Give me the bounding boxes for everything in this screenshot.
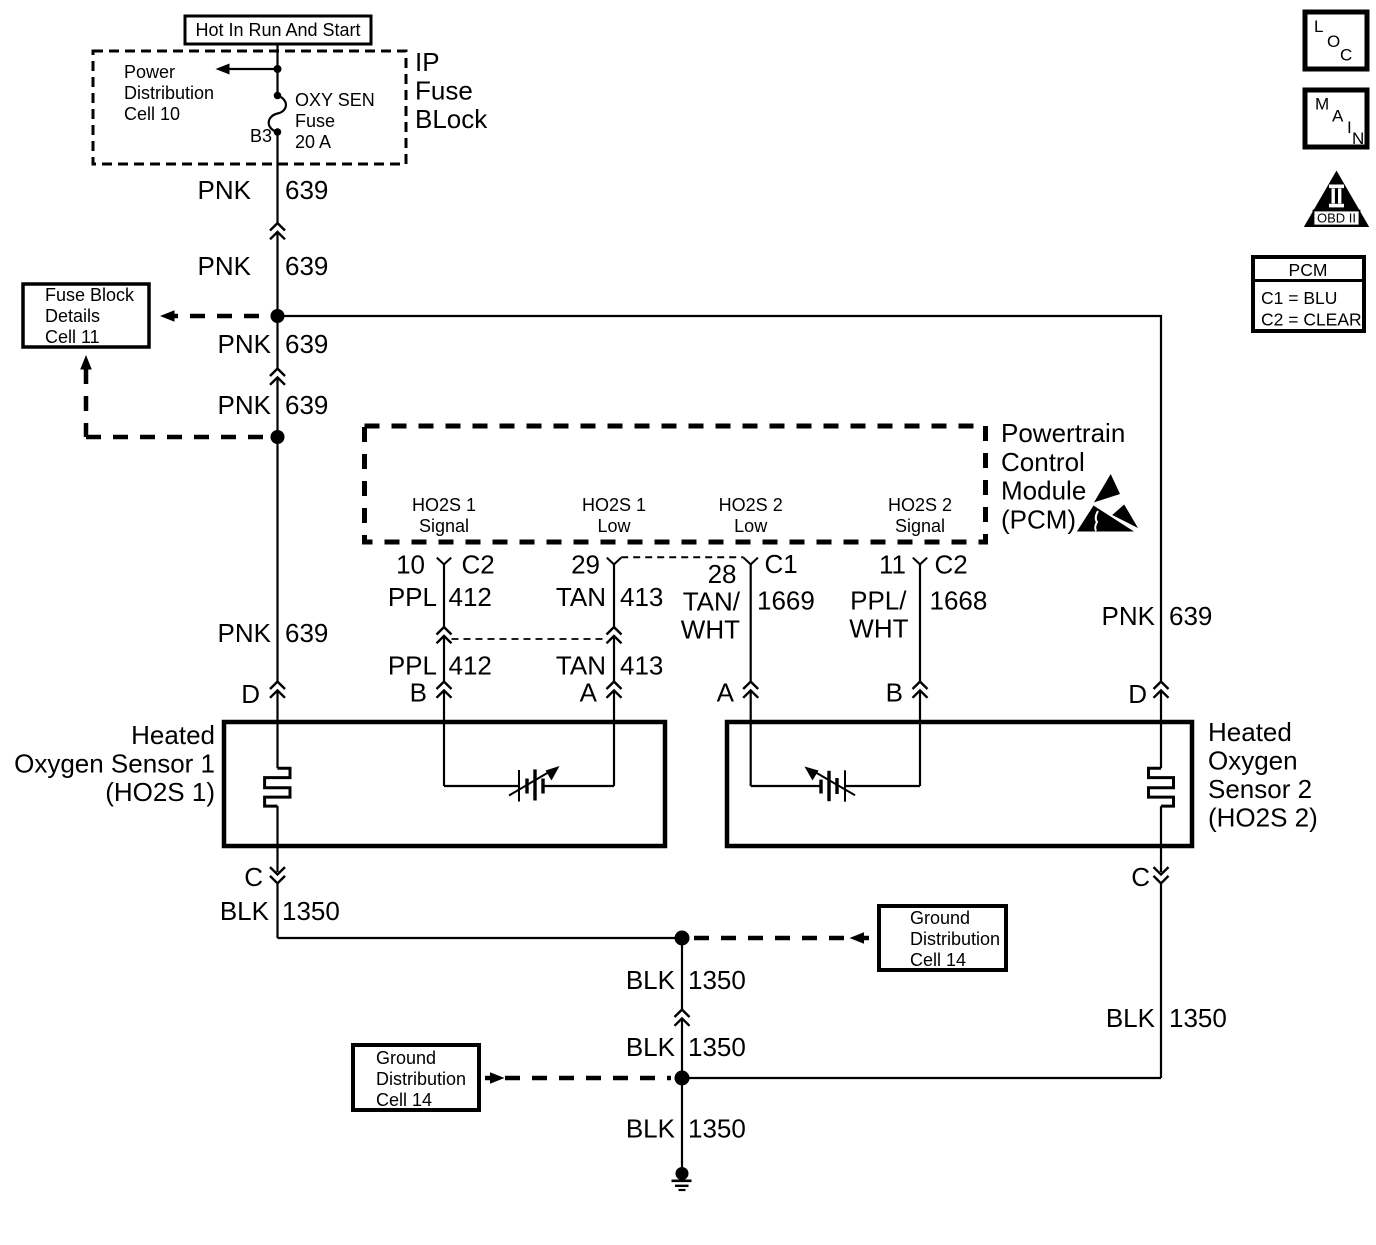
in-line connector on PNK 639 xyxy=(270,369,285,385)
connector label C2 right xyxy=(935,550,968,580)
junction node heater feed xyxy=(271,430,285,444)
heater element HO2S1 xyxy=(265,768,290,806)
svg-text:HO2S 1: HO2S 1 xyxy=(582,495,646,515)
svg-text:Fuse: Fuse xyxy=(295,111,335,131)
svg-text:HO2S 2: HO2S 2 xyxy=(719,495,783,515)
svg-text:N: N xyxy=(1352,129,1364,148)
svg-text:1350: 1350 xyxy=(282,896,340,926)
label BLK 1350 left xyxy=(220,896,340,926)
svg-text:Ground: Ground xyxy=(910,908,970,928)
label TAN/WHT 1669 xyxy=(681,586,815,645)
OBD II symbol xyxy=(1304,171,1369,228)
svg-text:PPL: PPL xyxy=(388,651,437,681)
svg-text:Power: Power xyxy=(124,62,175,82)
svg-text:Oxygen Sensor 1: Oxygen Sensor 1 xyxy=(14,749,215,779)
wire PPL 412 lower xyxy=(443,636,445,682)
svg-text:WHT: WHT xyxy=(849,614,908,644)
label BLK 1350 bottom xyxy=(626,1114,746,1144)
pin number 28 xyxy=(708,559,737,589)
svg-text:639: 639 xyxy=(285,175,328,205)
svg-text:OXY SEN: OXY SEN xyxy=(295,90,375,110)
svg-text:C2 = CLEAR: C2 = CLEAR xyxy=(1261,310,1362,330)
dashed reference arrow from Ground Distribution (lower) xyxy=(485,1072,671,1084)
label Heated Oxygen Sensor 1 (HO2S 1) xyxy=(14,720,215,807)
connector pin B at HO2S1 xyxy=(410,678,452,787)
pin 10 C2 socket xyxy=(437,558,451,565)
junction node to PCM feed xyxy=(271,309,285,323)
svg-text:Powertrain: Powertrain xyxy=(1001,418,1125,448)
PCM pin label HO2S 1 Low xyxy=(582,495,646,536)
label PNK 639 xyxy=(198,175,329,205)
wire BLK 1350 connector to junction xyxy=(681,1018,683,1078)
svg-text:29: 29 xyxy=(571,550,600,580)
HO2S1 sensor box xyxy=(224,722,665,846)
svg-text:639: 639 xyxy=(285,618,328,648)
svg-text:639: 639 xyxy=(1169,601,1212,631)
pin number 11 xyxy=(879,550,906,580)
junction node at power feed xyxy=(274,65,282,73)
sensor cell HO2S2 xyxy=(751,767,920,802)
wire PNK 639 down to HO2S1 xyxy=(276,377,278,682)
svg-text:Module: Module xyxy=(1001,476,1086,506)
svg-text:OBD II: OBD II xyxy=(1317,211,1356,226)
svg-text:11: 11 xyxy=(879,550,906,580)
label TAN 413 upper xyxy=(556,582,663,612)
svg-text:A: A xyxy=(580,678,598,708)
pin 11 socket xyxy=(913,558,927,565)
svg-text:PNK: PNK xyxy=(218,390,272,420)
svg-text:C: C xyxy=(244,862,263,892)
wire heater to C pin HO2S1 xyxy=(276,806,278,872)
svg-text:C: C xyxy=(1131,862,1150,892)
svg-text:C2: C2 xyxy=(462,550,495,580)
svg-text:PNK: PNK xyxy=(198,175,252,205)
svg-text:L: L xyxy=(1314,17,1323,36)
label PPL 412 lower xyxy=(388,651,492,681)
svg-text:HO2S 1: HO2S 1 xyxy=(412,495,476,515)
dashed reference arrow to Fuse Block Details xyxy=(160,310,271,322)
svg-text:B: B xyxy=(410,678,427,708)
legend box LOC xyxy=(1305,12,1367,69)
wire BLK 1350 left sensor to ground junction xyxy=(278,937,683,939)
PCM pin label HO2S 2 Signal xyxy=(888,495,952,536)
svg-text:BLK: BLK xyxy=(220,896,270,926)
dashed reference arrow to Ground Distribution (upper) xyxy=(694,932,869,944)
svg-text:Signal: Signal xyxy=(895,516,945,536)
svg-text:C: C xyxy=(1340,46,1352,65)
power source box Hot In Run And Start xyxy=(185,16,371,44)
svg-text:Heated: Heated xyxy=(131,720,215,750)
label PPL 412 upper xyxy=(388,582,492,612)
label TAN 413 lower xyxy=(556,651,663,681)
svg-text:PPL/: PPL/ xyxy=(850,586,907,616)
svg-text:BLK: BLK xyxy=(626,1114,676,1144)
svg-text:Fuse Block: Fuse Block xyxy=(45,285,135,305)
connector pin C at HO2S2 xyxy=(1131,862,1168,1078)
connector pin C at HO2S1 xyxy=(244,862,285,938)
svg-text:1350: 1350 xyxy=(1169,1003,1227,1033)
label Heated Oxygen Sensor 2 (HO2S 2) xyxy=(1208,717,1318,833)
svg-text:Distribution: Distribution xyxy=(910,929,1000,949)
svg-text:M: M xyxy=(1315,95,1329,114)
svg-text:10: 10 xyxy=(396,550,425,580)
pin number 29 xyxy=(571,550,600,580)
svg-text:Oxygen: Oxygen xyxy=(1208,746,1298,776)
svg-text:PNK: PNK xyxy=(198,251,252,281)
svg-text:BLK: BLK xyxy=(1106,1003,1156,1033)
label Power Distribution Cell 10 xyxy=(124,62,214,124)
reference box Fuse Block Details Cell 11 xyxy=(23,284,149,347)
label PNK 639 xyxy=(218,618,329,648)
connector label C1 xyxy=(765,549,798,579)
wire heater to C pin HO2S2 xyxy=(1160,806,1162,872)
in-line connector on TAN 413 xyxy=(607,627,622,643)
svg-text:TAN: TAN xyxy=(556,582,606,612)
svg-text:Fuse: Fuse xyxy=(415,76,473,106)
svg-text:Details: Details xyxy=(45,306,100,326)
svg-text:Cell 11: Cell 11 xyxy=(45,327,100,347)
svg-text:Signal: Signal xyxy=(419,516,469,536)
label Powertrain Control Module (PCM) xyxy=(1001,418,1125,534)
svg-text:Control: Control xyxy=(1001,447,1085,477)
svg-text:BLK: BLK xyxy=(626,1032,676,1062)
wire TAN 413 upper xyxy=(613,564,615,627)
wire PNK 639 fuse to connector xyxy=(276,132,278,223)
svg-text:BLK: BLK xyxy=(626,965,676,995)
svg-text:(PCM): (PCM) xyxy=(1001,504,1076,534)
svg-text:PNK: PNK xyxy=(218,618,272,648)
svg-text:Distribution: Distribution xyxy=(124,83,214,103)
svg-text:1350: 1350 xyxy=(688,1032,746,1062)
in-line connector on PNK 639 xyxy=(270,223,285,239)
svg-text:28: 28 xyxy=(708,559,737,589)
svg-text:HO2S 2: HO2S 2 xyxy=(888,495,952,515)
ground G103 xyxy=(672,1167,692,1190)
svg-text:Heated: Heated xyxy=(1208,717,1292,747)
svg-text:1669: 1669 xyxy=(757,586,815,616)
wire TAN 413 lower xyxy=(613,636,615,682)
PCM pin label HO2S 1 Signal xyxy=(412,495,476,536)
svg-text:1668: 1668 xyxy=(930,586,988,616)
svg-text:Sensor 2: Sensor 2 xyxy=(1208,774,1312,804)
svg-text:1350: 1350 xyxy=(688,965,746,995)
svg-text:639: 639 xyxy=(285,329,328,359)
wire BLK 1350 right sensor to ground junction xyxy=(682,1077,1161,1079)
svg-text:Cell 14: Cell 14 xyxy=(910,950,966,970)
svg-text:A: A xyxy=(1332,107,1344,126)
reference box Ground Distribution Cell 14 (upper) xyxy=(879,906,1006,970)
svg-text:TAN: TAN xyxy=(556,651,606,681)
svg-text:412: 412 xyxy=(449,582,492,612)
label BLK 1350 center upper xyxy=(626,965,746,995)
label B3 xyxy=(250,126,272,146)
svg-text:(HO2S 2): (HO2S 2) xyxy=(1208,803,1318,833)
label PNK 639 right xyxy=(1102,601,1213,631)
legend box PCM connectors xyxy=(1253,257,1364,331)
pin 29 socket xyxy=(607,558,621,565)
svg-text:D: D xyxy=(241,679,260,709)
connector label C2 xyxy=(462,550,495,580)
svg-text:PPL: PPL xyxy=(388,582,437,612)
wire from Hot In Run box down to fuse xyxy=(276,44,278,96)
svg-text:TAN/: TAN/ xyxy=(683,587,741,617)
IP fuse block dashed box xyxy=(93,51,406,164)
wire PPL/WHT 1668 xyxy=(919,564,921,681)
wire PNK 639 feed across top to HO2S2 xyxy=(278,316,1162,683)
svg-text:Cell 14: Cell 14 xyxy=(376,1090,432,1110)
connector pin B at HO2S2 xyxy=(886,678,928,787)
svg-text:Distribution: Distribution xyxy=(376,1069,466,1089)
label BLK 1350 center middle xyxy=(626,1032,746,1062)
svg-text:639: 639 xyxy=(285,390,328,420)
dashed connector jumper between PPL and TAN connectors xyxy=(452,638,607,640)
reference box Ground Distribution Cell 14 (lower) xyxy=(353,1045,479,1110)
label IP Fuse BLock xyxy=(415,47,488,134)
svg-text:PNK: PNK xyxy=(218,329,272,359)
wire BLK 1350 ground bus xyxy=(681,938,683,1010)
svg-text:C1: C1 xyxy=(765,549,798,579)
connector pin D at HO2S2 xyxy=(1128,679,1168,768)
svg-text:A: A xyxy=(717,678,735,708)
svg-text:WHT: WHT xyxy=(681,615,740,645)
svg-text:639: 639 xyxy=(285,251,328,281)
svg-text:D: D xyxy=(1128,679,1147,709)
heater element HO2S2 xyxy=(1149,768,1174,806)
svg-text:Hot In Run And Start: Hot In Run And Start xyxy=(195,20,360,40)
label BLK 1350 right xyxy=(1106,1003,1227,1033)
label PPL/WHT 1668 xyxy=(849,586,987,644)
junction node ground bus top xyxy=(675,931,690,946)
label OXY SEN Fuse 20 A xyxy=(295,90,375,152)
legend box MAIN xyxy=(1305,90,1367,148)
fuse OXY SEN 20 A xyxy=(269,92,286,136)
svg-text:B: B xyxy=(886,678,903,708)
connector pin A at HO2S2 xyxy=(717,678,759,787)
svg-text:Low: Low xyxy=(734,516,768,536)
wire PPL 412 upper xyxy=(443,564,445,627)
dashed jumper pin 29 to pin 28 xyxy=(621,556,743,558)
ESD symbol triangle with hand xyxy=(1077,505,1138,532)
svg-text:BLock: BLock xyxy=(415,104,488,134)
wire arrow to Power Distribution xyxy=(216,64,278,75)
sensor cell HO2S1 xyxy=(444,766,614,802)
connector pin A at HO2S1 xyxy=(580,678,622,787)
svg-text:412: 412 xyxy=(449,651,492,681)
wire TAN/WHT 1669 xyxy=(750,564,752,681)
svg-text:Ground: Ground xyxy=(376,1048,436,1068)
svg-text:(HO2S 1): (HO2S 1) xyxy=(105,777,215,807)
pin number 10 xyxy=(396,550,425,580)
connector pin D at HO2S1 xyxy=(241,679,285,768)
junction node ground bus bottom xyxy=(675,1071,690,1086)
wire BLK 1350 to ground xyxy=(681,1078,683,1167)
in-line connector on PPL 412 xyxy=(437,627,452,643)
svg-text:C1 = BLU: C1 = BLU xyxy=(1261,288,1337,308)
ESD symbol small triangle xyxy=(1094,474,1120,502)
PCM dashed box xyxy=(365,426,986,542)
svg-text:413: 413 xyxy=(620,582,663,612)
svg-text:O: O xyxy=(1327,32,1340,51)
PCM pin label HO2S 2 Low xyxy=(719,495,783,536)
label PNK 639 xyxy=(218,390,329,420)
svg-text:Cell 10: Cell 10 xyxy=(124,104,180,124)
wire PNK 639 connector to junction xyxy=(276,232,278,369)
svg-text:1350: 1350 xyxy=(688,1114,746,1144)
svg-text:B3: B3 xyxy=(250,126,272,146)
in-line connector on BLK 1350 xyxy=(675,1010,690,1026)
dashed reference arrow from below Fuse Block Details xyxy=(80,355,268,437)
label PNK 639 xyxy=(218,329,329,359)
pin 28 socket xyxy=(744,558,758,565)
svg-text:IP: IP xyxy=(415,47,440,77)
svg-text:C2: C2 xyxy=(935,550,968,580)
label PNK 639 xyxy=(198,251,329,281)
HO2S2 sensor box xyxy=(727,722,1192,846)
svg-text:20 A: 20 A xyxy=(295,132,331,152)
svg-text:PNK: PNK xyxy=(1102,601,1156,631)
svg-text:Low: Low xyxy=(597,516,631,536)
svg-text:PCM: PCM xyxy=(1289,260,1328,280)
svg-text:413: 413 xyxy=(620,651,663,681)
